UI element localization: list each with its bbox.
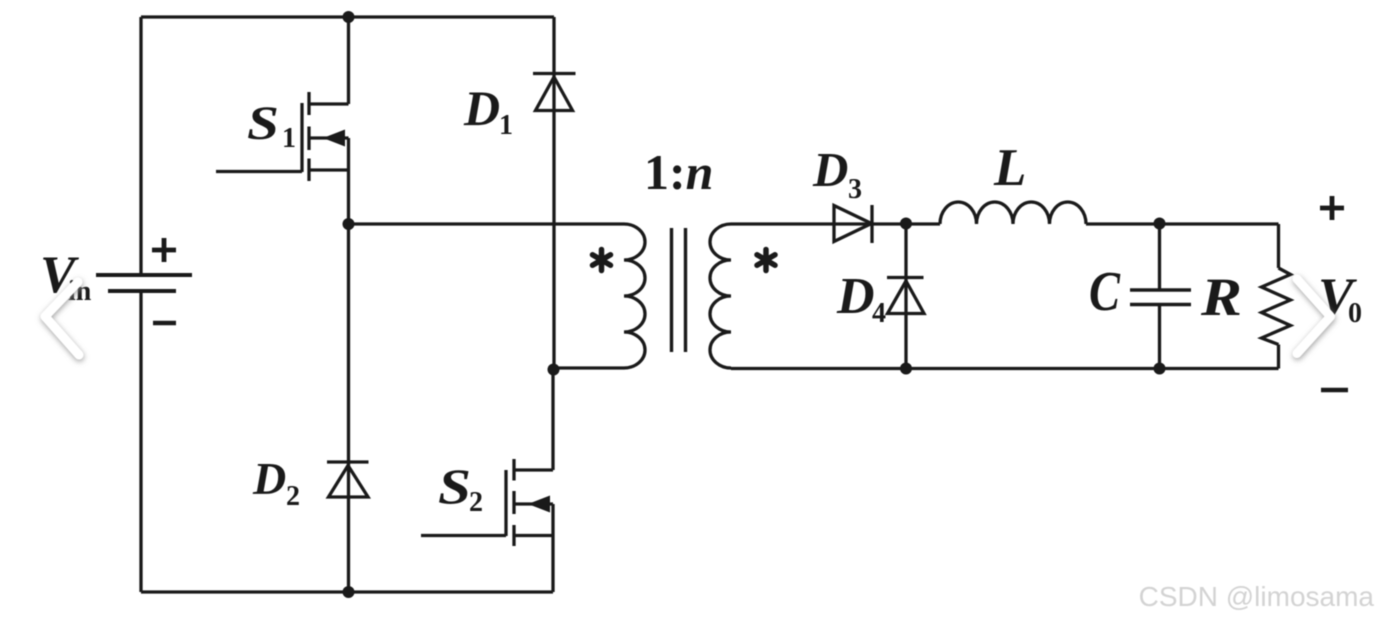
diode D1 cathode bar (533, 72, 576, 75)
transistor Q S1 source lead (309, 168, 349, 171)
wire L to output corner (1086, 222, 1279, 225)
svg-text:D: D (252, 453, 286, 504)
transistor Q S1 body arrow (323, 130, 345, 147)
node C top junction dot (1154, 218, 1166, 230)
wire left rail upper (139, 17, 142, 273)
capacitor C bottom plate (1130, 303, 1191, 307)
output plus sign (1320, 196, 1344, 220)
capacitor C bottom lead (1158, 306, 1161, 369)
diode D4 triangle (888, 281, 925, 314)
wire bottom rail (141, 590, 553, 593)
node D3-L junction dot (900, 218, 912, 230)
transformer dot mark secondary asterisk (757, 250, 775, 271)
svg-text:D: D (463, 80, 500, 136)
battery Vin bottom plate (108, 289, 176, 293)
svg-text:2: 2 (469, 487, 483, 518)
svg-text:CSDN @limosama: CSDN @limosama (1139, 581, 1375, 612)
wire middle horizontal to primary (349, 222, 625, 225)
carousel left chevron (45, 282, 79, 355)
wire S1 gate lead (216, 170, 302, 173)
transistor Q S1 drain lead (309, 102, 349, 105)
svg-text:1:n: 1:n (644, 144, 713, 200)
svg-text:1: 1 (282, 123, 296, 154)
transistor Q S2 gate bar (504, 470, 507, 536)
diode D1 triangle (536, 77, 573, 111)
wire S2 drain vertical (551, 371, 554, 470)
node primary-top junction dot (343, 218, 355, 230)
resistor R bottom lead (1277, 345, 1280, 369)
transistor Q S2 body arrow (528, 496, 550, 513)
transistor Q S2 channel segments (512, 459, 515, 546)
diode D3 cathode bar (870, 205, 873, 243)
diode D4 cathode bar (887, 276, 924, 279)
resistor R zigzag (1262, 268, 1291, 345)
svg-text:1: 1 (499, 110, 513, 141)
svg-text:R: R (1200, 267, 1242, 327)
transistor Q S1 gate bar (300, 103, 303, 172)
wire primary bottom lead (551, 366, 624, 369)
node C bottom junction dot (1154, 363, 1166, 375)
transistor Q S2 body lead (514, 502, 553, 505)
svg-text:4: 4 (872, 298, 886, 329)
transistor Q S2 source lead (514, 534, 553, 537)
diode D1 top lead (552, 17, 555, 371)
wire left rail lower (139, 293, 142, 592)
node bottom rail junction dot (343, 586, 355, 598)
svg-text:L: L (993, 139, 1026, 197)
capacitor C top lead (1158, 224, 1161, 289)
wire S2 gate lead (421, 534, 506, 537)
transformer T secondary winding (710, 224, 731, 368)
svg-text:S: S (247, 97, 279, 150)
transformer T primary winding (624, 224, 645, 368)
wire node to L (906, 222, 940, 225)
capacitor C top plate (1130, 288, 1191, 292)
wire S1 source vertical (347, 138, 350, 224)
diode D2 cathode bar (327, 460, 369, 463)
wire S1 drain vertical (347, 17, 350, 104)
svg-text:3: 3 (848, 174, 862, 205)
wire S2 source vertical (551, 504, 554, 592)
output minus sign (1321, 388, 1348, 393)
wire top rail (141, 15, 554, 18)
svg-text:D: D (836, 268, 875, 325)
battery Vin top plate (96, 273, 192, 277)
carousel right chevron (1297, 279, 1331, 354)
svg-text:2: 2 (286, 481, 300, 512)
resistor R top lead (1277, 224, 1280, 268)
node D4 bottom junction dot (900, 363, 912, 375)
transistor Q S1 channel segments (307, 92, 310, 181)
svg-text:C: C (1089, 261, 1121, 323)
transformer T core lines (672, 228, 686, 352)
diode D2 top lead (347, 224, 350, 592)
node primary-bottom junction dot (548, 364, 560, 376)
transformer dot mark primary asterisk (593, 250, 611, 271)
diode D3 triangle (834, 206, 872, 242)
svg-text:0: 0 (1348, 298, 1362, 329)
node top rail junction dot (343, 11, 355, 23)
wire secondary bottom rail (731, 367, 1279, 370)
diode D4 top lead (904, 224, 907, 369)
transistor Q S1 body lead (309, 136, 349, 139)
svg-text:S: S (438, 458, 471, 514)
battery plus sign (152, 238, 176, 262)
wire secondary top lead (731, 222, 906, 225)
battery minus sign (153, 321, 176, 326)
inductor L (940, 202, 1086, 224)
transistor Q S2 drain lead (514, 468, 553, 471)
svg-text:D: D (812, 142, 848, 197)
diode D2 triangle (329, 466, 369, 498)
